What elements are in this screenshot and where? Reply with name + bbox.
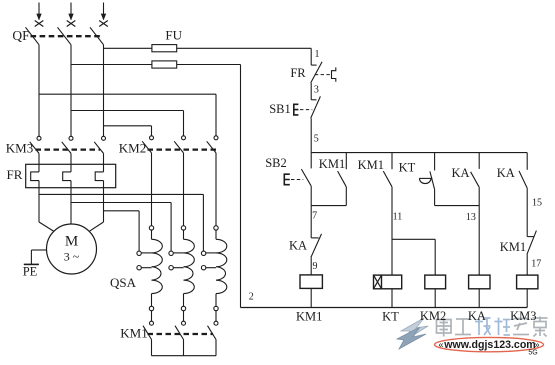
FR heater element 1 (31, 172, 39, 181)
svg-text:KM3: KM3 (6, 140, 33, 155)
svg-text:FR: FR (7, 167, 23, 182)
svg-text:KA: KA (451, 166, 469, 180)
contact KM1 NC right (527, 231, 537, 276)
motor M circle (47, 224, 97, 274)
svg-text:2: 2 (249, 292, 254, 303)
contact KM1 aux 2 NO (383, 153, 392, 276)
svg-text:M: M (65, 233, 78, 249)
motor lead right diagonal (89, 222, 103, 231)
contactor KM3 pole2 (62, 136, 73, 153)
contactor KM1 linkage dashed (148, 333, 214, 335)
star point bus (152, 355, 217, 357)
svg-text:KM2: KM2 (119, 140, 146, 155)
wire control feed vertical to FR contact (310, 48, 312, 65)
pushbutton SB1 NC (294, 96, 321, 118)
svg-text:KM1: KM1 (319, 157, 345, 171)
coil KM3 (517, 275, 538, 307)
svg-text:KM1: KM1 (296, 310, 322, 324)
breaker QF pole2 lever (58, 27, 72, 44)
breaker QF pole3 cross mark (99, 21, 108, 27)
svg-text:KA: KA (497, 166, 515, 180)
breaker QF pole1 lever (26, 27, 40, 44)
FR heater element 3 (95, 172, 103, 181)
autotransformer QSA coil 1 (137, 226, 162, 311)
svg-text:1: 1 (315, 49, 320, 60)
svg-text:9: 9 (313, 261, 318, 272)
wire node 2 vertical drop (240, 65, 242, 308)
watermark logo bolt back (401, 318, 428, 341)
breaker QF pole2 cross mark (67, 21, 76, 27)
contact KM1 self-hold NO (338, 153, 347, 206)
control bottom rail (241, 307, 528, 309)
svg-text:FR: FR (290, 66, 306, 80)
autotransformer QSA coil 2 (169, 226, 194, 311)
svg-text:3: 3 (314, 84, 319, 95)
coil KA (469, 275, 490, 307)
svg-text:KM3: KM3 (510, 309, 536, 323)
time relay contact KT (419, 153, 434, 206)
svg-text:KM1: KM1 (120, 325, 147, 340)
contactor KM2 pole2 (174, 136, 185, 153)
wires QSA bottoms to KM1 (152, 311, 217, 322)
wire branch node11 to KM2 coil (392, 239, 435, 275)
svg-text:PE: PE (23, 265, 38, 279)
wire phase2 vertical (70, 45, 72, 137)
contactor KM2 pole1 (142, 136, 153, 153)
svg-text:3 ~: 3 ~ (64, 249, 80, 263)
label M 3~ (64, 233, 80, 263)
wire FR to SB1 (310, 83, 312, 100)
contactor KM3 linkage dashed (36, 149, 101, 151)
wire SB1 to rail (310, 118, 312, 152)
autotransformer QSA coil 3 (201, 226, 226, 311)
relay contact KA NO branch (471, 153, 480, 276)
wire phase2 branch to KM2 pole2 (71, 111, 184, 136)
svg-text:KM1: KM1 (358, 158, 384, 172)
svg-text:KA: KA (289, 238, 307, 252)
breaker QF pole1 cross mark (35, 21, 44, 27)
motor lead left diagonal (39, 222, 54, 231)
svg-text:13: 13 (466, 212, 476, 223)
wire L3 to fuse FU1 and control node 1 (104, 47, 312, 49)
svg-text:FU: FU (165, 27, 182, 42)
contactor KM3 pole3 (94, 136, 105, 153)
contactor KM1 pole2 (175, 321, 186, 339)
svg-text:QF: QF (12, 28, 30, 43)
wire phase3 vertical (103, 45, 105, 137)
wire phase3 branch to KM2 pole1 (104, 126, 152, 136)
coil KT with delay box (374, 275, 402, 307)
thermal relay FR NC contact (311, 62, 336, 83)
svg-text:«: « (438, 339, 443, 349)
wires KM2 outputs to QSA tops (152, 153, 217, 226)
wires FR outputs to motor (39, 181, 104, 225)
contactor KM2 pole3 (207, 136, 218, 153)
contactor KM1 pole1 (143, 321, 154, 339)
watermark banner ellipse (435, 337, 544, 351)
relay contact KA NO right (519, 153, 527, 237)
svg-text:5G: 5G (528, 349, 537, 356)
ground PE (24, 250, 47, 264)
wire L2 to fuse FU2 and node 2 drop (71, 64, 241, 66)
svg-text:KT: KT (399, 160, 416, 174)
fuse FU1 (152, 45, 177, 52)
coil KM1 (300, 275, 322, 308)
coil KM2 (425, 275, 446, 307)
wires KM1 outputs to star bus (152, 340, 217, 356)
wires KM3 outputs into FR (39, 153, 104, 172)
svg-text:KA: KA (468, 309, 486, 323)
fuse FU2 (152, 61, 177, 68)
watermark logo bolt front (397, 327, 426, 349)
svg-text:7: 7 (312, 210, 317, 221)
wire motor W to QSA coil1 tap (104, 211, 140, 251)
contactor KM2 linkage dashed (148, 149, 218, 151)
phase L1 supply arrow (36, 3, 41, 21)
contactor KM3 pole1 (30, 136, 41, 153)
relay contact KA NC above KM1 coil (311, 234, 322, 275)
FR heater element 2 (63, 172, 71, 181)
svg-text:KT: KT (382, 309, 399, 323)
wire motor U to QSA coil3 tap (39, 194, 203, 251)
svg-text:www.dgjs123.com: www.dgjs123.com (443, 339, 535, 351)
phase L3 supply arrow (101, 3, 106, 21)
watermark text 电工技术之家 (pseudo glyph blocks) (437, 317, 548, 337)
phase L2 supply arrow (68, 3, 73, 21)
svg-text:KM2: KM2 (420, 309, 446, 323)
svg-text:11: 11 (393, 211, 403, 222)
control top rail (311, 152, 527, 154)
svg-text:SB2: SB2 (265, 156, 287, 170)
svg-text:QSA: QSA (110, 275, 137, 290)
thermal relay FR box (26, 164, 116, 187)
svg-text:15: 15 (532, 197, 542, 208)
svg-text:17: 17 (531, 258, 541, 269)
breaker QF pole3 lever (90, 27, 104, 44)
breaker QF linkage dashed (31, 35, 101, 37)
wire self-hold joining connector (311, 205, 346, 207)
svg-text:SB1: SB1 (269, 102, 291, 116)
wire KT-KA connector (435, 205, 480, 207)
contactor KM1 pole3 (208, 321, 219, 339)
pushbutton SB2 NO (284, 153, 311, 186)
wire SB2 down main column (310, 186, 312, 238)
wire motor V to QSA coil2 tap (71, 203, 171, 252)
wire phase1 vertical (38, 45, 40, 137)
svg-text:KM1: KM1 (500, 240, 526, 254)
wire phase1 branch to KM2 pole3 (39, 94, 216, 136)
svg-text:5: 5 (314, 133, 319, 144)
